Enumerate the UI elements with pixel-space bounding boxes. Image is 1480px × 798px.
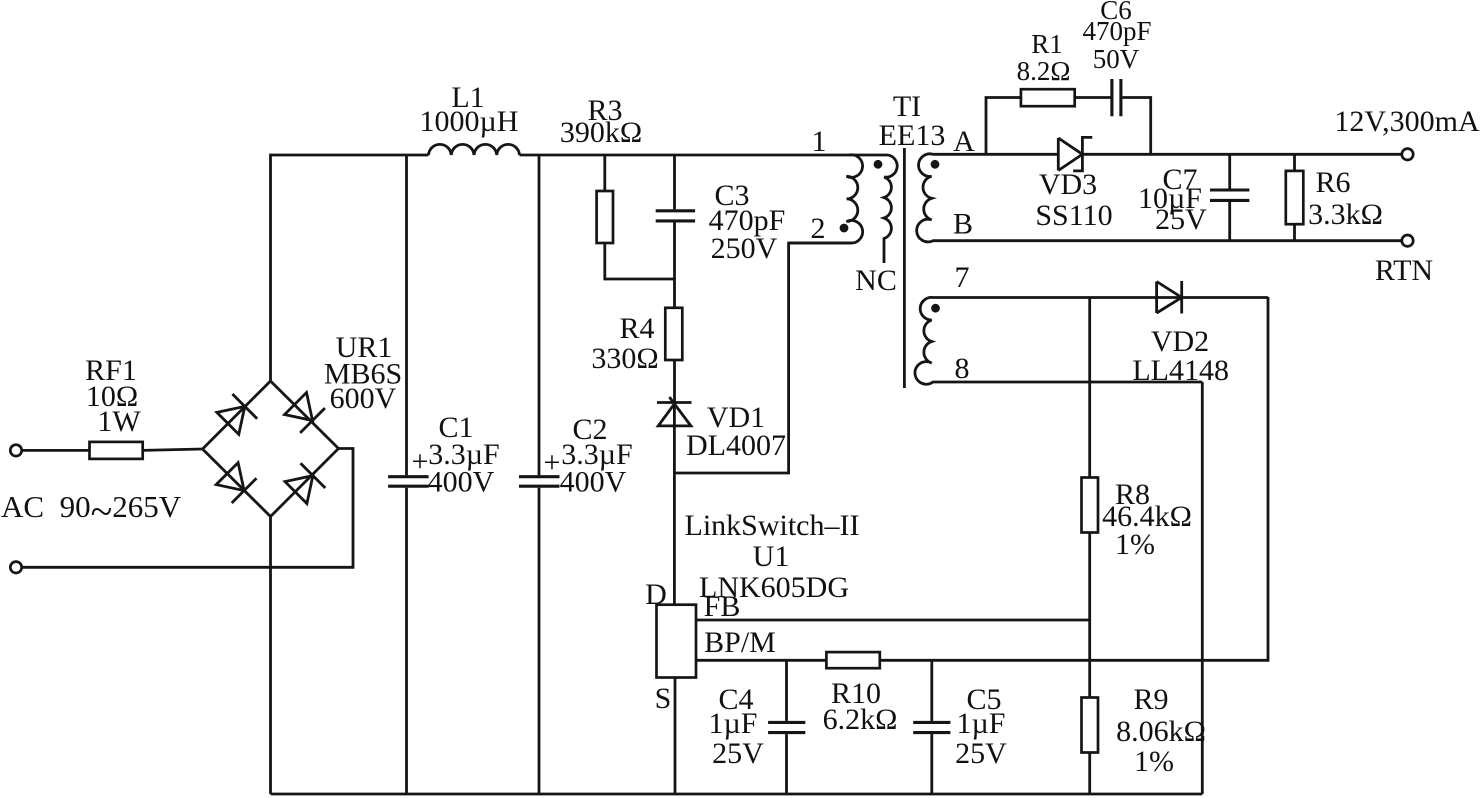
svg-text:470pF: 470pF: [1082, 16, 1151, 46]
svg-text:B: B: [953, 208, 973, 241]
svg-text:25V: 25V: [712, 737, 764, 770]
capacitor C5: [913, 660, 1007, 794]
AC input terminal upper: [10, 445, 21, 456]
svg-text:50V: 50V: [1093, 44, 1140, 74]
svg-text:R1: R1: [1031, 29, 1063, 59]
AC input terminal lower: [10, 562, 21, 573]
wire R10 to VD2 cathode riser: [880, 297, 1268, 660]
transformer core: [903, 148, 906, 388]
bridge diode bottom-left: [215, 461, 257, 503]
wire RF1 to bridge left vertex: [143, 449, 203, 450]
svg-text:+: +: [544, 446, 561, 479]
svg-text:25V: 25V: [1155, 203, 1207, 236]
svg-text:EE13: EE13: [879, 119, 946, 152]
svg-text:3.3kΩ: 3.3kΩ: [1308, 198, 1383, 231]
svg-text:R9: R9: [1133, 683, 1168, 716]
wire AC lower lead to bridge right vertex: [22, 449, 353, 568]
capacitor C1: [388, 155, 500, 794]
polarity dot primary pin2: [840, 224, 849, 233]
wire AC upper lead: [22, 449, 90, 452]
wire FB pin to R8/R9 junction: [696, 619, 1090, 622]
output terminal 12V: [1402, 149, 1413, 160]
transformer primary winding 1-2: [789, 155, 863, 243]
svg-text:7: 7: [955, 261, 970, 294]
svg-text:330Ω: 330Ω: [591, 342, 658, 375]
resistor R10: [823, 652, 898, 736]
resistor R4: [591, 308, 682, 403]
resistor R3: [560, 94, 675, 279]
svg-text:6.2kΩ: 6.2kΩ: [823, 703, 898, 736]
output terminal RTN: [1402, 235, 1413, 246]
polarity dot winding 7: [931, 304, 940, 313]
svg-text:R4: R4: [619, 312, 654, 345]
transformer secondary winding A-B: [917, 154, 1402, 242]
svg-text:250V: 250V: [711, 232, 778, 265]
bridge diode top-left: [215, 394, 257, 436]
svg-text:RTN: RTN: [1375, 254, 1433, 287]
transformer bias winding 7-8: [915, 297, 1268, 384]
polarity dot primary top: [874, 160, 883, 169]
svg-text:S: S: [655, 682, 672, 715]
diode VD1: [657, 397, 786, 473]
svg-text:12V,300mA: 12V,300mA: [1334, 105, 1480, 138]
capacitor C4: [709, 660, 806, 794]
wire ground rail: [271, 793, 1203, 796]
svg-text:+: +: [412, 445, 429, 478]
transformer primary NC half-winding: [884, 155, 897, 263]
wire VD1 to U1 drain: [673, 473, 676, 605]
svg-text:8.2Ω: 8.2Ω: [1017, 56, 1071, 86]
polarity dot secondary A: [931, 160, 940, 169]
bridge diode top-right: [283, 391, 325, 433]
wire top rail with corner from bridge top: [271, 155, 429, 382]
resistor R6: [1286, 154, 1383, 240]
svg-text:400V: 400V: [428, 466, 495, 499]
svg-text:D: D: [645, 578, 667, 611]
diode VD3 schottky: [1035, 137, 1112, 232]
wire snubber left riser: [986, 98, 1021, 155]
svg-text:2: 2: [811, 212, 826, 245]
svg-text:VD3: VD3: [1039, 168, 1097, 201]
wire U1 source to ground rail: [674, 678, 677, 795]
svg-text:1000µH: 1000µH: [420, 105, 519, 138]
svg-text:1%: 1%: [1115, 528, 1155, 561]
inductor L1: [420, 81, 520, 155]
capacitor C6: [1082, 0, 1151, 116]
svg-text:1%: 1%: [1134, 745, 1174, 778]
svg-text:25V: 25V: [955, 737, 1007, 770]
svg-text:FB: FB: [704, 590, 741, 623]
capacitor C3: [656, 155, 786, 308]
svg-text:1W: 1W: [97, 405, 141, 438]
svg-text:SS110: SS110: [1035, 199, 1112, 232]
svg-text:LinkSwitch–II: LinkSwitch–II: [685, 509, 860, 542]
bridge diode bottom-right: [284, 463, 326, 505]
svg-text:BP/M: BP/M: [704, 626, 776, 659]
capacitor C2: [519, 155, 633, 794]
svg-text:400V: 400V: [560, 466, 627, 499]
svg-text:8.06kΩ: 8.06kΩ: [1116, 715, 1206, 748]
svg-text:600V: 600V: [330, 382, 397, 415]
svg-text:LL4148: LL4148: [1132, 354, 1229, 387]
bridge rectifier UR1 diamond: [203, 331, 403, 517]
wire output rail to terminal: [1082, 153, 1401, 156]
capacitor C7: [1138, 154, 1249, 240]
svg-text:8: 8: [955, 352, 970, 385]
op-amp U1 LNK605DG body: [645, 509, 859, 715]
wire top rail L1 to transformer pin1: [520, 154, 889, 157]
resistor R1: [1017, 29, 1075, 106]
svg-text:1µF: 1µF: [957, 707, 1006, 740]
wire bridge bottom vertex to ground rail: [269, 517, 272, 795]
wire drain node to transformer pin 2: [674, 243, 852, 473]
wire BP/M pin to R10: [696, 659, 826, 662]
svg-text:R6: R6: [1315, 166, 1350, 199]
svg-text:U1: U1: [753, 540, 790, 573]
svg-text:DL4007: DL4007: [686, 429, 786, 462]
resistor R8: [1082, 298, 1192, 698]
svg-text:390kΩ: 390kΩ: [560, 116, 642, 149]
wire C6 right riser to output rail: [1121, 98, 1151, 155]
diode VD2: [1132, 281, 1229, 387]
wire winding 8 to ground: [1201, 382, 1204, 794]
wire R1 to C6: [1075, 96, 1112, 99]
resistor RF1: [85, 354, 143, 459]
transformer TI EE13: [811, 90, 976, 385]
resistor R9: [1082, 683, 1206, 794]
svg-text:NC: NC: [855, 264, 897, 297]
svg-text:1: 1: [812, 125, 827, 158]
svg-text:1µF: 1µF: [709, 707, 758, 740]
